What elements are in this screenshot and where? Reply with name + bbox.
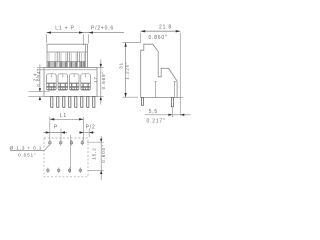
svg-text:P/2+0,6: P/2+0,6 — [91, 25, 114, 31]
svg-text:0.217": 0.217" — [146, 118, 165, 124]
svg-text:0.051": 0.051" — [18, 152, 37, 158]
svg-text:15,2: 15,2 — [92, 147, 97, 159]
svg-text:21.8: 21.8 — [159, 24, 172, 30]
svg-text:17: 17 — [93, 76, 98, 83]
svg-text:L1 + P: L1 + P — [55, 25, 74, 31]
svg-text:1.220": 1.220" — [125, 61, 130, 79]
svg-text:P/2: P/2 — [86, 125, 96, 131]
svg-text:0.600": 0.600" — [101, 144, 106, 162]
svg-text:P: P — [54, 125, 58, 131]
svg-text:0.669": 0.669" — [101, 71, 106, 89]
svg-text:0.094": 0.094" — [36, 68, 41, 86]
svg-text:31: 31 — [118, 62, 123, 69]
svg-text:L1: L1 — [60, 113, 67, 119]
svg-text:0.860": 0.860" — [148, 35, 167, 41]
svg-text:5,5: 5,5 — [149, 109, 158, 115]
